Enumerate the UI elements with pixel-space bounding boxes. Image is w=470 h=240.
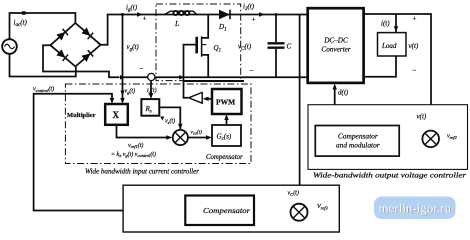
svg-text:Converter: Converter (321, 46, 350, 54)
svg-text:and modulator: and modulator (336, 141, 380, 150)
svg-text:X: X (113, 110, 120, 120)
svg-text:vca(t): vca(t) (191, 129, 203, 136)
svg-text:−: − (413, 67, 417, 75)
svg-text:Compensator: Compensator (203, 206, 250, 215)
svg-text:i(t): i(t) (381, 20, 390, 28)
svg-text:vref1(t): vref1(t) (128, 142, 143, 149)
svg-text:+: + (252, 16, 256, 24)
svg-text:vg(t): vg(t) (125, 88, 136, 95)
svg-text:PWM: PWM (216, 98, 235, 107)
svg-text:L: L (174, 19, 179, 28)
svg-text:Wide bandwidth input current c: Wide bandwidth input current controller (85, 168, 199, 176)
svg-text:Q1: Q1 (214, 44, 222, 54)
svg-text:Vref3: Vref3 (317, 204, 329, 210)
svg-text:DC–DC: DC–DC (323, 37, 348, 45)
svg-text:−: − (140, 65, 144, 73)
svg-text:d(t): d(t) (338, 89, 349, 97)
svg-text:v(t): v(t) (409, 42, 419, 50)
svg-text:= kx vg(t) vcontrol(t): = kx vg(t) vcontrol(t) (111, 151, 156, 158)
svg-text:v(t): v(t) (417, 113, 427, 121)
svg-text:i2(t): i2(t) (243, 3, 255, 13)
svg-text:Multiplier: Multiplier (67, 112, 96, 119)
svg-text:Compensator: Compensator (206, 154, 243, 161)
svg-text:vC(t): vC(t) (238, 43, 252, 53)
svg-text:−: − (250, 67, 254, 75)
svg-text:Wide-bandwidth output voltage: Wide-bandwidth output voltage controller (313, 172, 466, 180)
svg-text:merlin-igor.ru: merlin-igor.ru (379, 201, 452, 216)
svg-text:iac(t): iac(t) (14, 19, 28, 29)
svg-text:ig(t): ig(t) (126, 4, 138, 14)
svg-text:vg(t): vg(t) (127, 43, 140, 53)
svg-text:+: + (143, 15, 147, 23)
svg-text:vC(t): vC(t) (288, 190, 299, 197)
svg-text:+: + (413, 15, 417, 23)
svg-text:Compensator: Compensator (338, 131, 378, 140)
svg-text:vref2: vref2 (447, 134, 458, 140)
svg-text:vcontrol(t): vcontrol(t) (33, 86, 54, 93)
svg-text:vs(t): vs(t) (165, 118, 175, 125)
svg-text:Load: Load (381, 42, 397, 50)
svg-text:D1: D1 (218, 23, 227, 33)
svg-text:C: C (287, 43, 292, 51)
svg-text:ig(t): ig(t) (147, 87, 157, 94)
